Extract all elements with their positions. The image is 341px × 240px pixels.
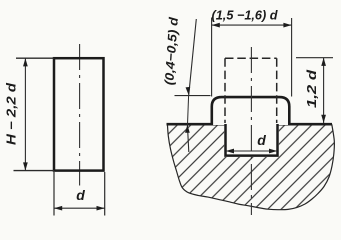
- svg-text:H − 2,2 d: H − 2,2 d: [5, 83, 19, 145]
- initial shank outline before forming (dashed) left side: [224, 58, 226, 123]
- dimension (1,5-1,6)d left extension line: [211, 18, 213, 97]
- dimension (1,5-1,6)d arrow left: [212, 23, 220, 28]
- dimension H-2,2d bottom extension line: [14, 170, 55, 172]
- dimension H-2,2d line: [24, 58, 26, 170]
- dimension d (hole) arrow left: [226, 149, 234, 154]
- svg-text:1,2 d: 1,2 d: [304, 69, 319, 108]
- dimension (1,5-1,6)d line: [212, 24, 292, 26]
- svg-text:(1,5 −1,6) d: (1,5 −1,6) d: [212, 8, 279, 23]
- dimension d (hole) line: [226, 150, 277, 152]
- dimension 1,2d extension line: [296, 57, 333, 59]
- dimension d (hole) arrow right: [269, 149, 277, 154]
- dimension (1,5-1,6)d arrow right: [283, 23, 291, 28]
- rivet blank body outline: [54, 58, 104, 170]
- svg-text:d: d: [257, 132, 266, 148]
- dimension H-2,2d top extension line: [16, 57, 54, 59]
- dimension (1,5-1,6)d right extension line: [291, 18, 293, 97]
- initial shank outline before forming (dashed) top: [225, 57, 277, 59]
- dimension (0,4-0,5)d line across head height: [188, 95, 189, 124]
- initial shank outline before forming (dashed) right side: [276, 58, 278, 123]
- dimension d (blank) right extension line: [104, 172, 106, 216]
- dimension d (blank) line: [54, 207, 105, 209]
- plate top surface: [167, 123, 333, 126]
- dimension (0,4-0,5)d extension line at head top: [175, 95, 211, 97]
- dimension H-2,2d arrow up: [23, 58, 28, 66]
- svg-text:(0,4−0,5) d: (0,4−0,5) d: [162, 16, 181, 85]
- dimension d (blank) left extension line: [53, 172, 55, 216]
- rivet shank in hole: [226, 124, 278, 156]
- dimension (0,4-0,5)d upper line: [189, 19, 197, 95]
- dimension (0,4-0,5)d arrow down: [186, 87, 191, 96]
- centerline of rivet blank: [79, 44, 81, 186]
- dimension H-2,2d arrow down: [23, 162, 28, 170]
- closing head of rivet: [212, 97, 289, 125]
- centerline of riveted joint: [250, 47, 252, 215]
- dimension d (blank) arrow left: [54, 206, 62, 211]
- plate break line (freehand boundary): [167, 124, 334, 209]
- dimension d (blank) arrow right: [97, 206, 105, 211]
- dimension 1,2d line: [323, 58, 325, 123]
- svg-text:d: d: [76, 187, 85, 203]
- plate section hatching: [167, 124, 334, 209]
- dimension (0,4-0,5)d arrow up: [185, 125, 190, 133]
- dimension 1,2d arrow up: [321, 58, 326, 66]
- dimension 1,2d arrow down: [321, 115, 326, 123]
- dimension (0,4-0,5)d lower line: [187, 125, 188, 152]
